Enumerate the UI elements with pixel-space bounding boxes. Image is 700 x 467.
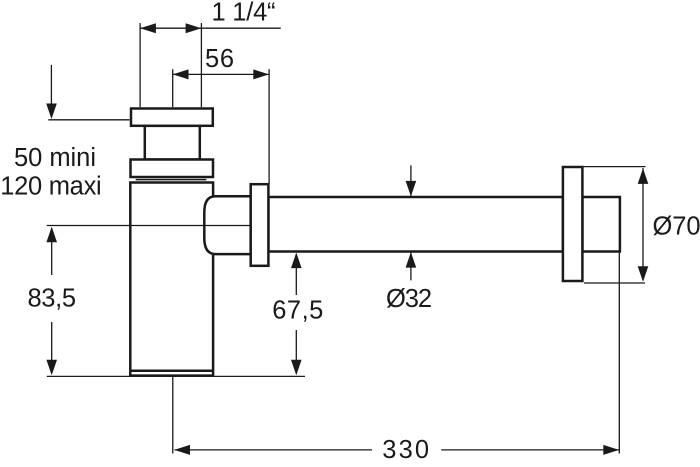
svg-text:83,5: 83,5	[28, 285, 77, 313]
svg-text:56: 56	[205, 45, 234, 73]
svg-text:Ø70: Ø70	[653, 213, 700, 241]
svg-text:50 mini: 50 mini	[14, 144, 96, 172]
svg-text:67,5: 67,5	[272, 297, 323, 325]
svg-text:Ø32: Ø32	[386, 285, 432, 313]
svg-text:120 maxi: 120 maxi	[0, 173, 102, 201]
svg-text:330: 330	[382, 436, 429, 464]
svg-text:1 1/4“: 1 1/4“	[212, 0, 276, 27]
